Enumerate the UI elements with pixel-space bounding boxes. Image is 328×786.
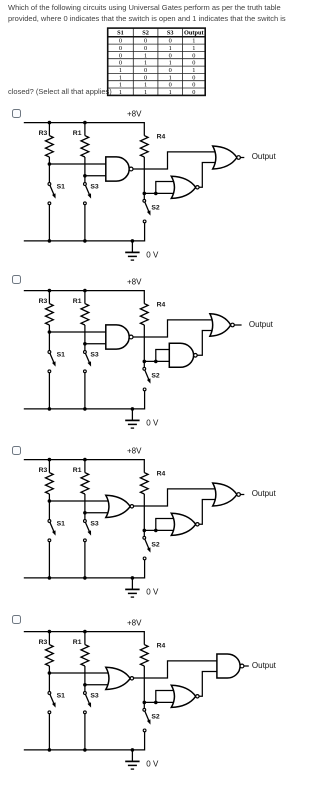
svg-text:0: 0 [119, 45, 122, 52]
svg-text:R4: R4 [157, 470, 166, 477]
svg-text:0: 0 [144, 45, 147, 52]
svg-text:R1: R1 [73, 467, 82, 474]
svg-text:S2: S2 [151, 372, 160, 379]
svg-text:S3: S3 [90, 351, 99, 358]
svg-text:R3: R3 [39, 467, 48, 474]
svg-text:1: 1 [192, 45, 195, 52]
svg-text:R4: R4 [157, 642, 166, 649]
svg-text:0 V: 0 V [146, 759, 159, 768]
svg-text:R3: R3 [39, 639, 48, 646]
svg-text:S2: S2 [151, 713, 160, 720]
svg-text:Output: Output [249, 320, 274, 329]
svg-text:1: 1 [169, 89, 172, 96]
svg-text:1: 1 [144, 60, 147, 67]
svg-text:0: 0 [144, 67, 147, 74]
svg-text:1: 1 [119, 67, 122, 74]
svg-text:+8V: +8V [127, 446, 142, 455]
svg-text:1: 1 [169, 45, 172, 52]
svg-text:S1: S1 [57, 351, 66, 358]
svg-text:Output: Output [252, 489, 277, 498]
svg-text:R3: R3 [39, 130, 48, 137]
svg-text:1: 1 [144, 82, 147, 89]
svg-text:R4: R4 [157, 133, 166, 140]
svg-text:0: 0 [169, 52, 172, 59]
svg-text:Output: Output [252, 661, 277, 670]
svg-text:0: 0 [119, 38, 122, 45]
svg-text:0: 0 [169, 67, 172, 74]
svg-text:0 V: 0 V [146, 251, 159, 260]
svg-text:S1: S1 [57, 692, 66, 699]
svg-text:Output: Output [252, 152, 277, 161]
svg-text:1: 1 [169, 74, 172, 81]
svg-text:0: 0 [144, 38, 147, 45]
svg-text:R4: R4 [157, 301, 166, 308]
svg-text:+8V: +8V [127, 277, 142, 286]
svg-text:0: 0 [169, 82, 172, 89]
svg-text:R1: R1 [73, 298, 82, 305]
svg-text:0: 0 [192, 89, 195, 96]
svg-text:1: 1 [169, 60, 172, 67]
svg-text:0: 0 [192, 52, 195, 59]
svg-text:S2: S2 [151, 204, 160, 211]
svg-text:1: 1 [119, 89, 122, 96]
svg-text:0: 0 [192, 74, 195, 81]
svg-text:0 V: 0 V [146, 587, 159, 596]
svg-text:1: 1 [192, 38, 195, 45]
svg-text:S1: S1 [57, 183, 66, 190]
svg-text:R1: R1 [73, 130, 82, 137]
svg-text:S1: S1 [117, 30, 124, 37]
svg-text:Output: Output [184, 30, 205, 37]
svg-text:0: 0 [144, 74, 147, 81]
svg-text:+8V: +8V [127, 109, 142, 118]
svg-text:1: 1 [192, 67, 195, 74]
svg-text:0 V: 0 V [146, 419, 159, 428]
svg-text:S3: S3 [90, 520, 99, 527]
svg-text:R1: R1 [73, 639, 82, 646]
svg-text:S3: S3 [90, 183, 99, 190]
svg-text:S3: S3 [90, 692, 99, 699]
svg-text:0: 0 [119, 60, 122, 67]
svg-text:1: 1 [144, 52, 147, 59]
svg-text:1: 1 [119, 82, 122, 89]
svg-text:0: 0 [192, 60, 195, 67]
svg-text:0: 0 [119, 52, 122, 59]
svg-text:0: 0 [169, 38, 172, 45]
svg-text:S1: S1 [57, 520, 66, 527]
svg-text:S2: S2 [142, 30, 149, 37]
svg-text:1: 1 [144, 89, 147, 96]
svg-text:S3: S3 [167, 30, 174, 37]
svg-text:S2: S2 [151, 541, 160, 548]
svg-text:0: 0 [192, 82, 195, 89]
svg-text:+8V: +8V [127, 618, 142, 627]
svg-text:R3: R3 [39, 298, 48, 305]
svg-text:1: 1 [119, 74, 122, 81]
